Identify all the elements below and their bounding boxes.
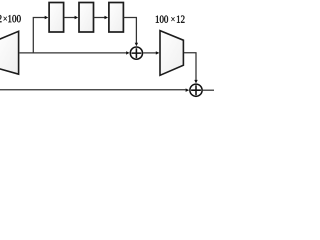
adder2 circle plus xyxy=(190,84,202,96)
wire long skip bottom xyxy=(0,89,186,91)
wire rect1 to rect2 xyxy=(64,17,75,19)
block rect3 xyxy=(109,3,124,33)
wire output right xyxy=(203,89,214,91)
wire decoder down to adder2 xyxy=(184,53,196,81)
wire rect3 down to adder1 xyxy=(123,18,136,44)
arrowhead into decoder xyxy=(156,51,160,54)
wire adder1 to decoder xyxy=(143,52,156,54)
arrowhead into adder2 xyxy=(186,88,190,92)
adder1 circle plus xyxy=(130,47,142,59)
label 2x100 xyxy=(0,15,21,22)
arrowhead into adder1 xyxy=(126,51,130,54)
arrowhead into block2 xyxy=(75,16,79,19)
wire rect2 to rect3 xyxy=(94,17,105,19)
decoder trapezoid right xyxy=(160,31,183,76)
block rect2 xyxy=(79,3,94,33)
encoder trapezoid left xyxy=(0,31,19,74)
arrowhead down into adder1 xyxy=(135,43,138,47)
label 100x12 xyxy=(156,16,185,23)
wire skip branch up xyxy=(33,18,45,53)
arrowhead down into adder2 xyxy=(194,80,197,84)
block rect1 xyxy=(49,3,64,33)
wire main path to adder1 xyxy=(19,52,126,54)
arrowhead into block1 xyxy=(45,16,49,19)
arrowhead into block3 xyxy=(105,16,109,19)
